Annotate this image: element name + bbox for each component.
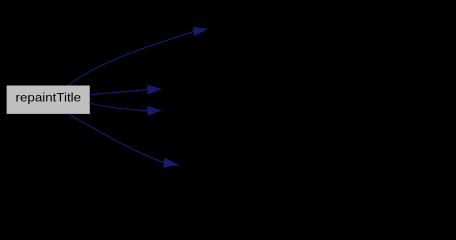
svg-text:repaintTitle: repaintTitle — [16, 91, 82, 105]
